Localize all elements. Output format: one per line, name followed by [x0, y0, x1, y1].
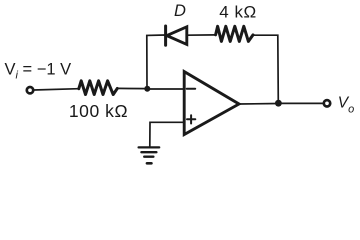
wire 4k resistor to right feedback corner, down to output node — [253, 35, 278, 103]
wire input terminal to 100k resistor — [34, 89, 79, 90]
ground symbol — [139, 147, 160, 163]
resistor 4 kOhm — [216, 26, 253, 41]
diode D (triangle, pointing left) — [167, 27, 187, 45]
op-amp plus sign (non-inverting input) — [187, 115, 195, 123]
wire diode to 4k resistor — [187, 34, 216, 36]
wire 100k resistor to node A — [117, 87, 147, 89]
wire node A to op-amp inverting input — [147, 88, 184, 90]
svg-text:D: D — [174, 2, 186, 20]
wire ground riser to op-amp non-inverting input — [150, 122, 184, 147]
wire node A up to feedback branch — [147, 35, 166, 89]
node B (output junction dot) — [275, 100, 282, 107]
op-amp minus sign (inverting input) — [187, 88, 196, 90]
output terminal Vo — [324, 100, 330, 106]
svg-text:4 kΩ: 4 kΩ — [219, 2, 256, 21]
wire op-amp output to node B — [239, 103, 278, 106]
svg-text:Vi = −1 V: Vi = −1 V — [5, 60, 72, 81]
svg-text:Vo: Vo — [338, 94, 354, 115]
wire node B to output terminal — [278, 102, 323, 104]
resistor 100 kOhm — [79, 81, 118, 95]
diode D (cathode bar) — [164, 26, 167, 45]
node A (junction dot, inverting input node) — [144, 86, 150, 92]
input terminal Vi — [27, 87, 33, 93]
svg-text:100 kΩ: 100 kΩ — [69, 101, 128, 121]
op-amp U1 triangle — [184, 72, 239, 135]
